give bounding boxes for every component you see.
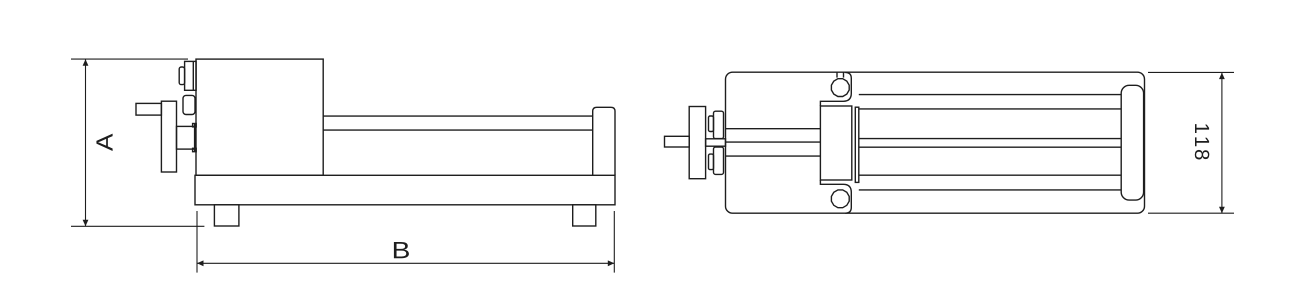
bottom tab bracket xyxy=(820,180,851,213)
crank knob plate (top view) xyxy=(689,107,705,179)
extension line B right xyxy=(613,211,615,273)
feed rods (3 lines) xyxy=(726,128,821,130)
handle bar xyxy=(136,103,161,115)
upper nut xyxy=(714,111,724,138)
extension line bottom (dim A) xyxy=(71,225,204,227)
rail bottom line (side view) xyxy=(323,129,593,131)
arrowhead 118 bottom xyxy=(1219,207,1225,214)
carriage block xyxy=(820,106,851,180)
motor cap inner line xyxy=(192,61,194,90)
label 118 xyxy=(1195,124,1210,159)
small connector rect xyxy=(179,67,184,85)
dimension line 118 xyxy=(1221,72,1223,213)
left foot xyxy=(214,205,239,226)
dimension line A xyxy=(85,59,87,226)
mid shaft between knob and plate xyxy=(706,139,726,146)
shaft flange bar xyxy=(194,124,197,152)
extension line top (dim 118) xyxy=(1148,71,1234,73)
extension line top (dim A) xyxy=(71,58,188,60)
lead screw line2 xyxy=(859,146,1121,148)
upper nut washer xyxy=(709,116,714,132)
carriage nut strip xyxy=(855,107,859,182)
guide rail lower line2 xyxy=(859,189,1121,191)
label B xyxy=(394,242,409,258)
rounded square block xyxy=(183,95,195,114)
bottom bolt circle xyxy=(831,190,849,208)
extension line B left xyxy=(196,211,198,273)
base plate (side view) xyxy=(195,175,615,205)
arrowhead A bottom xyxy=(83,220,89,227)
crank plate xyxy=(161,101,176,172)
extension line bottom (dim 118) xyxy=(1148,212,1234,214)
crank shaft tip (top view) xyxy=(665,136,690,147)
top tab bracket xyxy=(820,72,851,106)
base plate (top view) xyxy=(726,72,1145,213)
arrowhead 118 top xyxy=(1219,73,1225,80)
right foot xyxy=(573,205,596,226)
lower nut xyxy=(714,147,724,174)
arrowhead B right xyxy=(608,260,615,266)
top tab bolt slot xyxy=(836,72,838,77)
tailstock end block xyxy=(593,107,615,175)
flange nub bottom xyxy=(193,148,197,151)
arrowhead B left xyxy=(197,260,204,266)
guide rail upper line2 xyxy=(859,108,1121,110)
arrowhead A top xyxy=(83,59,89,66)
label A xyxy=(96,134,112,151)
motor cap block xyxy=(185,61,197,90)
guide rail lower line1 xyxy=(859,174,1121,176)
end guide bar (top view) xyxy=(1121,85,1143,200)
lead screw line1 xyxy=(859,138,1121,140)
top bolt circle xyxy=(831,79,849,97)
guide rail upper line1 xyxy=(859,94,1121,96)
lower nut washer xyxy=(709,154,714,170)
headstock body box xyxy=(196,59,323,175)
crank shaft xyxy=(177,126,196,149)
dimension line B xyxy=(197,262,614,264)
flange nub top xyxy=(193,124,197,127)
rail top line (side view) xyxy=(323,115,593,117)
